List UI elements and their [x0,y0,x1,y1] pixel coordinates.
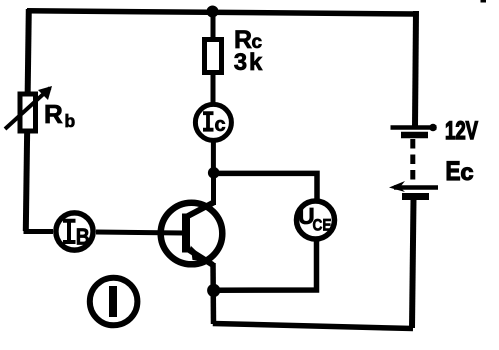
ammeter IB [56,213,93,250]
svg-text:12V: 12V [445,117,478,145]
svg-text:CE: CE [313,216,332,235]
svg-text:k: k [249,49,263,76]
wire emitter vertical [210,263,216,324]
battery Ec cell 2 [389,181,438,197]
svg-text:c: c [215,114,226,136]
svg-text:c: c [461,159,474,185]
node emitter junction [207,284,220,297]
svg-text:3: 3 [234,49,247,76]
resistor Rc [205,40,222,73]
wire Uce loop bottom [214,240,317,290]
label Rb [44,99,75,131]
wire collector branch vertical [211,11,217,205]
figure number 1 [90,278,138,326]
wire left vertical [26,9,29,231]
label Rc 3k [234,26,263,76]
label Uce [298,203,332,235]
label IB [63,221,90,250]
wire right vertical upper [415,11,416,126]
label Ic [203,113,226,136]
ammeter Ic [195,104,231,140]
battery Ec cell 1 [391,124,437,135]
stray mark top edge [481,0,487,3]
node collector junction [208,167,220,179]
wire top [27,11,416,14]
svg-text:b: b [65,111,76,131]
wire base (IB to transistor) [24,232,185,234]
wire Uce loop top [214,173,318,200]
wire bottom [213,324,413,329]
svg-text:E: E [446,156,461,186]
wire battery dashed [410,139,415,182]
transistor Q1 [160,202,222,265]
label Ec [446,156,474,186]
svg-text:R: R [44,99,63,129]
resistor Rb (variable) [5,86,52,131]
wire right vertical lower [412,199,414,328]
node top junction [207,6,219,18]
voltmeter Uce [297,201,335,239]
svg-text:B: B [76,223,90,249]
